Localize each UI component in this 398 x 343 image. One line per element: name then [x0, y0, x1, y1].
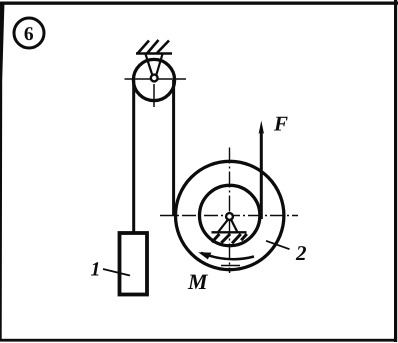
svg-text:2: 2 — [295, 241, 307, 265]
svg-text:M: M — [187, 269, 209, 294]
svg-text:6: 6 — [24, 24, 34, 45]
svg-text:F: F — [273, 112, 288, 136]
svg-text:1: 1 — [91, 259, 101, 281]
